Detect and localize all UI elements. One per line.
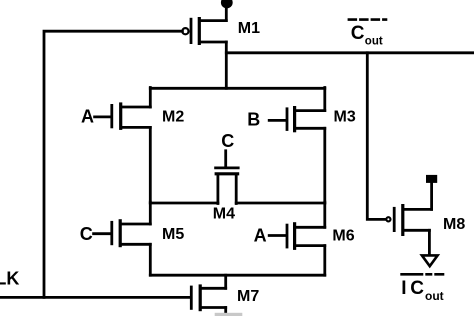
transistor M1 (PMOS) [182,19,226,44]
wire mid rail to M6 drain [323,202,326,227]
ground bar (clipped at bottom edge) [215,313,243,316]
transistor M2 (NMOS) [95,104,151,128]
wire mid rail right segment [236,202,325,205]
svg-text:M2: M2 [162,109,184,126]
svg-text:B: B [247,109,260,129]
wire M6 source to bottom rail [323,246,326,276]
svg-text:M3: M3 [334,109,356,126]
svg-text:M8: M8 [443,216,465,233]
wire block bottom rail [150,274,324,277]
wire M8 source up to supply square [430,183,433,210]
label Cout-bar (output net) [348,20,388,48]
svg-text:M4: M4 [213,206,235,223]
svg-text:C: C [221,131,234,151]
wire mid rail left segment [150,202,218,205]
wire M1 source stem to VDD dot [225,5,228,21]
label I Cout-bar (inverted output) [400,274,444,303]
wire block top rail [150,87,324,90]
svg-text:out: out [365,36,383,48]
wire M2 source to mid rail [149,127,152,203]
wire top rail to M2 drain [149,88,152,108]
power supply dot VDD (M1 source) [221,0,233,8]
svg-text:out: out [425,289,444,303]
transistor M6 (NMOS) [269,224,325,249]
wire M1 gate to CLK left rail [44,31,182,297]
wire M3 source to mid rail [323,128,326,203]
svg-text:A: A [254,226,267,246]
svg-text:I: I [401,278,406,299]
transistor M7 (NMOS) [191,286,225,310]
svg-text:M1: M1 [238,20,260,37]
transistor M3 (NMOS) [269,108,325,131]
svg-text:CLK: CLK [0,268,19,288]
svg-text:M6: M6 [332,228,354,245]
wire bottom rail to M7 drain [224,275,227,288]
wire M1 drain down to block top rail [225,42,228,88]
open triangle output symbol [422,255,438,266]
transistor M5 (NMOS) [94,221,151,246]
wire top rail to M3 drain [323,88,326,111]
wire mid rail to M5 drain [149,202,152,224]
svg-text:M5: M5 [162,226,184,243]
power supply square (M8 source) [426,175,437,183]
wire CLK bottom line to M7 gate [0,296,190,299]
wire output rail down to M8 gate [367,53,385,220]
transistor M4 (NMOS, gate on top) [216,151,239,204]
wire M7 source down to ground [224,308,227,316]
wire M5 source to bottom rail [149,244,152,275]
transistor M8 (PMOS) [386,206,431,235]
svg-text:C: C [80,224,93,244]
wire output rail (Cout-bar net) [226,51,474,54]
wire M8 drain down to output arrow [428,230,431,254]
svg-text:C: C [410,278,424,299]
svg-text:M7: M7 [237,288,259,305]
svg-text:C: C [351,23,365,44]
svg-text:A: A [81,107,94,127]
